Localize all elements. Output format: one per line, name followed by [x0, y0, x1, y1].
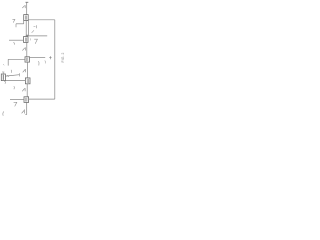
- wire Q2 to Q3: [26, 42, 28, 56]
- gate wire of Q3: [8, 58, 25, 60]
- gate wire of Q1: [16, 23, 24, 25]
- wire Q3 to Q4: [26, 62, 28, 78]
- arrow mark k3: [22, 88, 25, 91]
- arrow mark k4: [22, 109, 25, 113]
- transistor Q3 box: [25, 57, 30, 62]
- transistor Q1 box: [24, 15, 29, 21]
- numeral 7 label right of Q2: [34, 39, 37, 44]
- arrowhead on upper wire: [7, 75, 9, 76]
- leader line to resistor: [32, 30, 34, 33]
- crystal plate line: [2, 75, 4, 80]
- Q3 channel band: [27, 58, 28, 62]
- Q1 channel band: [26, 16, 27, 20]
- transistor Q4 box: [25, 78, 30, 84]
- faint numeral near branch end: [44, 61, 47, 64]
- svg-text:FIG. 2: FIG. 2: [61, 52, 65, 62]
- lead from label to crystal: [3, 73, 5, 75]
- tiny mark: [2, 64, 5, 65]
- gate stub down: [7, 59, 9, 65]
- numeral 5 with dash: [34, 25, 37, 28]
- numeral 7 below crystal: [4, 81, 5, 84]
- arrow mark k2: [23, 69, 26, 72]
- numeral 7 below branch: [38, 62, 39, 66]
- Q1 gate stub: [23, 21, 25, 24]
- bottom wire from Q5 to rail: [29, 98, 55, 100]
- Q5 channel band: [26, 98, 27, 102]
- numeral label above gate end: [13, 86, 16, 89]
- Q4 channel band: [27, 79, 28, 83]
- arrow mark k1: [22, 47, 25, 50]
- numeral 13 label above crystal: [2, 71, 4, 73]
- gate wire of Q2: [9, 39, 24, 41]
- right rail: [54, 20, 56, 99]
- gate wire of Q5: [10, 99, 24, 101]
- input terminal tick: [15, 24, 17, 28]
- numeral label right: [10, 70, 13, 73]
- top wire to right rail: [28, 19, 55, 21]
- tick at end of upper wire: [18, 73, 20, 76]
- upper wire from crystal: [5, 75, 19, 76]
- transistor Q5 box: [24, 97, 29, 103]
- resistor R1 (narrow box): [26, 21, 28, 36]
- power terminal bar at top: [26, 1, 29, 3]
- numeral mark bottom-left: [3, 111, 4, 115]
- numeral 7 below Q5 gate: [14, 102, 17, 106]
- arrow mark k0: [22, 5, 25, 8]
- wire below Q5: [26, 102, 28, 114]
- transistor Q2 box: [24, 37, 29, 43]
- tick at Q2 right edge: [30, 38, 32, 40]
- branch wire from Q3 right: [30, 57, 46, 59]
- ground foot: [25, 114, 26, 116]
- crystal X1 box: [1, 74, 5, 81]
- numeral 9 label: [13, 43, 14, 45]
- junction mark near rail: [49, 56, 51, 59]
- branch wire to right at node A: [26, 35, 48, 37]
- wire Q4 to Q5: [26, 84, 28, 97]
- Q2 channel band: [25, 38, 26, 42]
- numeral 7 label: [12, 19, 15, 22]
- gate wire of Q4: [5, 80, 25, 82]
- wire from power bar down to Q1: [26, 2, 28, 14]
